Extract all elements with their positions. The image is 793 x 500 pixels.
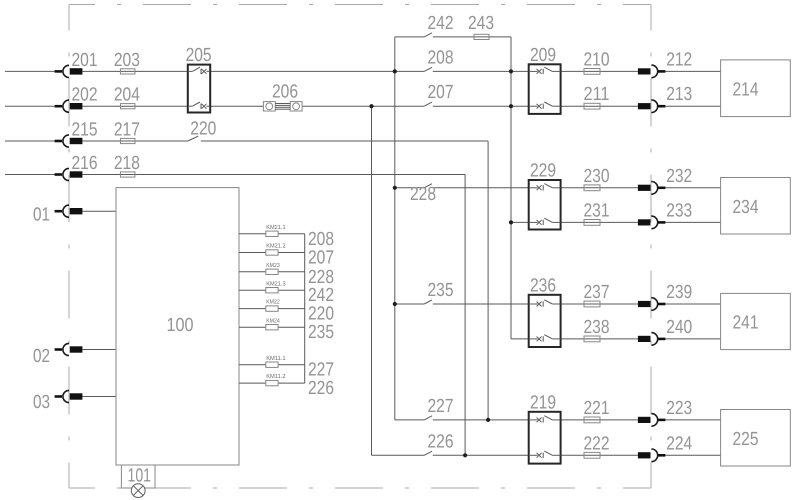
svg-text:240: 240: [666, 317, 692, 338]
svg-text:209: 209: [530, 45, 556, 66]
enclosure dashed border bottom: [69, 487, 651, 489]
svg-text:239: 239: [666, 282, 692, 303]
contactor K205 box: [188, 65, 210, 113]
svg-text:203: 203: [114, 50, 140, 71]
wire 237 K236-to-pin: [561, 303, 638, 305]
connector 03: [55, 390, 83, 402]
relay K236 contact b: [529, 335, 561, 342]
wire row 208 from box 100: [239, 233, 305, 235]
wire 238 K236-to-pin: [561, 338, 638, 340]
connector 01: [55, 205, 83, 217]
svg-text:204: 204: [114, 85, 140, 106]
svg-text:234: 234: [733, 197, 759, 218]
svg-text:215: 215: [72, 120, 98, 141]
fuse 211: [584, 103, 600, 109]
connector 224: [638, 449, 666, 462]
wire 239 to box 241: [665, 303, 720, 305]
contactor K205 contact a: [188, 67, 210, 74]
wire 222 K219-to-pin: [561, 454, 638, 456]
wire 235 riser-to-switch: [395, 303, 424, 305]
junction wire207/riser243: [509, 104, 513, 108]
switch 208 blade: [424, 67, 432, 71]
wire 227 switch-to-K219: [433, 419, 529, 421]
wire 232 to box 234: [665, 187, 720, 189]
connector 233: [638, 216, 666, 229]
svg-text:KM21.1: KM21.1: [266, 224, 286, 231]
fuse 204: [120, 104, 135, 109]
lamp: [131, 484, 145, 498]
svg-text:212: 212: [666, 49, 692, 70]
wire 229 bottom feed: [511, 221, 529, 223]
indicator box 101: [121, 465, 155, 488]
wire 235 switch-to-K236: [433, 303, 529, 305]
wire 210 K209-to-fuse-pin: [561, 70, 638, 72]
relay K219 box: [529, 412, 561, 464]
svg-text:216: 216: [72, 153, 98, 174]
wire 202 K205-to-206: [210, 105, 263, 107]
wire 201 pin-to-K205: [82, 70, 187, 72]
connector 02: [55, 343, 83, 355]
svg-text:211: 211: [584, 84, 610, 105]
switch 227 blade: [424, 416, 432, 420]
switch 226 blade: [424, 451, 432, 455]
wire 202 left segment: [5, 105, 55, 107]
box 225: [721, 410, 791, 467]
svg-text:KM22: KM22: [266, 299, 280, 306]
svg-text:01: 01: [33, 205, 50, 226]
svg-text:207: 207: [428, 82, 454, 103]
wire 208 switch-to-K209: [433, 70, 529, 72]
svg-text:227: 227: [428, 396, 454, 417]
svg-text:KM24: KM24: [266, 317, 280, 324]
relay K209 contact a: [529, 67, 561, 74]
switch 220 blade: [188, 136, 199, 141]
junction wire227/riser488: [486, 418, 490, 422]
wire 207 206-to-switch: [302, 105, 424, 107]
junction wire235 tap: [393, 302, 397, 306]
wire row 226 from box 100: [239, 382, 305, 384]
svg-text:03: 03: [33, 392, 50, 413]
box 234: [721, 178, 791, 235]
svg-text:218: 218: [114, 153, 140, 174]
svg-text:230: 230: [584, 166, 610, 187]
svg-text:02: 02: [33, 346, 50, 367]
wire row 227 from box 100: [239, 364, 305, 366]
svg-text:232: 232: [666, 166, 692, 187]
relay K219 contact b: [529, 451, 561, 458]
svg-text:207: 207: [308, 248, 334, 269]
connector 202: [55, 100, 83, 112]
relay K219 contact a: [529, 416, 561, 423]
wire 233 to box 234: [665, 221, 720, 223]
riser from wire 207 to wire 226: [371, 106, 373, 455]
svg-text:237: 237: [584, 282, 610, 303]
wire 217 pin-to-switch220: [82, 140, 187, 142]
junction wire208/riser: [393, 69, 397, 73]
wire 227 riser-to-switch: [395, 419, 424, 421]
wire 224 to box 225: [665, 454, 720, 456]
svg-text:233: 233: [666, 200, 692, 221]
relay K209 box: [529, 64, 561, 114]
wire 212 to box 214: [665, 70, 720, 72]
svg-text:223: 223: [666, 398, 692, 419]
svg-text:KM11.1: KM11.1: [266, 355, 286, 362]
svg-text:KM23: KM23: [266, 262, 280, 269]
enclosure dashed border top: [69, 4, 651, 6]
relay K209 contact b: [529, 102, 561, 109]
svg-text:242: 242: [428, 13, 454, 34]
switch 207 blade: [424, 102, 432, 106]
svg-text:231: 231: [584, 200, 610, 221]
shunt module 206: [263, 102, 302, 111]
svg-text:229: 229: [530, 161, 556, 182]
fuse 243: [474, 34, 489, 39]
relay K229 contact b: [529, 218, 561, 225]
switch 242 blade: [424, 33, 432, 37]
relay K229 box: [529, 180, 561, 230]
wire row 207 from box 100: [239, 252, 305, 254]
wire 208 K205-to-switch: [210, 70, 424, 72]
wire 228 riser-to-switch: [395, 187, 424, 189]
svg-text:214: 214: [733, 79, 759, 100]
connector 240: [638, 333, 666, 346]
wire row 242 from box 100: [239, 289, 305, 291]
wire row 235 from box 100: [239, 326, 305, 328]
svg-text:226: 226: [308, 378, 334, 399]
wire 213 to box 214: [665, 105, 720, 107]
wire 01 to box 100: [82, 210, 116, 212]
junction wire226/riser465: [463, 453, 467, 457]
relay coil KM11.1: [266, 362, 278, 367]
connector 213: [638, 100, 666, 113]
svg-text:202: 202: [72, 85, 98, 106]
relay K229 contact a: [529, 184, 561, 191]
wire 242 riser-to-switch: [395, 36, 424, 38]
relay coil KM21.1: [266, 231, 278, 236]
connector 212: [638, 65, 666, 78]
svg-text:210: 210: [584, 49, 610, 70]
svg-text:238: 238: [584, 317, 610, 338]
relay coil KM21.2: [266, 250, 278, 255]
KM return rail: [304, 234, 306, 383]
wire 240 to box 241: [665, 338, 720, 340]
svg-text:222: 222: [584, 433, 610, 454]
svg-text:KM21.2: KM21.2: [266, 243, 286, 250]
svg-text:235: 235: [308, 322, 334, 343]
box 241: [721, 293, 791, 349]
fuse 221: [584, 417, 600, 423]
enclosure dashed border left: [68, 5, 70, 489]
svg-text:201: 201: [72, 50, 98, 71]
fuse 222: [584, 452, 600, 458]
svg-text:208: 208: [428, 47, 454, 68]
connector 232: [638, 182, 666, 195]
controller box 100: [116, 188, 239, 465]
wire 242 switch-to-corner: [433, 36, 511, 38]
wire 226 switch-to-K219: [433, 454, 529, 456]
wire 211 K209-to-pin: [561, 105, 638, 107]
svg-text:226: 226: [428, 431, 454, 452]
fuse 238: [584, 336, 600, 342]
svg-text:219: 219: [530, 393, 556, 414]
relay coil KM23: [266, 269, 278, 274]
relay coil KM22: [266, 306, 278, 311]
fuse 230: [584, 185, 600, 191]
riser 243 to K229/K236 bottom: [510, 37, 512, 339]
wire 03 to box 100: [82, 396, 116, 398]
riser from wire 218 to wire 226: [464, 175, 466, 456]
connector 239: [638, 298, 666, 311]
fuse 217: [120, 138, 135, 143]
wire 216 left segment: [5, 174, 55, 176]
wire 223 to box 225: [665, 419, 720, 421]
fuse 210: [584, 69, 600, 75]
svg-text:243: 243: [468, 13, 494, 34]
junction K229 bottom feed: [509, 220, 513, 224]
fuse 203: [120, 69, 135, 74]
junction wire208/riser243: [509, 69, 513, 73]
contactor K205 contact b: [188, 102, 210, 109]
connector 216: [55, 168, 83, 180]
fuse 237: [584, 301, 600, 307]
svg-text:221: 221: [584, 398, 610, 419]
box 214: [721, 60, 791, 117]
fuse 218: [120, 172, 135, 177]
svg-text:241: 241: [733, 313, 759, 334]
svg-text:217: 217: [114, 120, 140, 141]
wire 220 switch-to-riser: [201, 140, 488, 142]
svg-text:225: 225: [733, 429, 759, 450]
svg-text:235: 235: [428, 280, 454, 301]
junction wire228 tap: [393, 186, 397, 190]
svg-text:236: 236: [530, 276, 556, 297]
switch 235 blade: [424, 300, 432, 304]
svg-text:224: 224: [666, 433, 692, 454]
svg-text:KM11.2: KM11.2: [266, 373, 286, 380]
wire 226 riser-to-switch: [372, 454, 425, 456]
svg-text:100: 100: [167, 315, 194, 336]
wire 202 pin-to-K205: [82, 105, 187, 107]
relay coil KM11.2: [266, 380, 278, 385]
connector 201: [55, 65, 83, 77]
junction wire207/riser371: [369, 104, 373, 108]
wire row 220 from box 100: [239, 308, 305, 310]
relay coil KM21.3: [266, 288, 278, 293]
wire 230 K229-to-pin: [561, 187, 638, 189]
relay K236 box: [529, 295, 561, 347]
wire 207 switch-to-K209: [433, 105, 529, 107]
riser 242/208/228/235/227: [394, 37, 396, 420]
wire 231 K229-to-pin: [561, 221, 638, 223]
switch 228 blade: [424, 184, 432, 188]
wire 221 K219-to-pin: [561, 419, 638, 421]
wire 215 left segment: [5, 140, 55, 142]
svg-text:228: 228: [410, 184, 436, 205]
wire 02 to box 100: [82, 349, 116, 351]
wire 201 left segment: [5, 70, 55, 72]
svg-text:213: 213: [666, 84, 692, 105]
wire row 228 from box 100: [239, 271, 305, 273]
svg-text:KM21.3: KM21.3: [266, 280, 286, 287]
relay coil KM24: [266, 325, 278, 330]
svg-text:220: 220: [190, 119, 216, 140]
connector 223: [638, 414, 666, 427]
fuse 231: [584, 220, 600, 226]
wire 236 bottom feed: [511, 338, 529, 340]
connector 215: [55, 135, 83, 147]
relay K236 contact a: [529, 300, 561, 307]
svg-text:206: 206: [272, 81, 298, 102]
riser from wire 220 to wire 227: [487, 141, 489, 420]
wire 218 pin-to-riser: [82, 174, 465, 176]
svg-text:205: 205: [186, 45, 212, 66]
enclosure dashed border right: [650, 5, 652, 489]
wire 228 switch-to-K229: [433, 187, 529, 189]
